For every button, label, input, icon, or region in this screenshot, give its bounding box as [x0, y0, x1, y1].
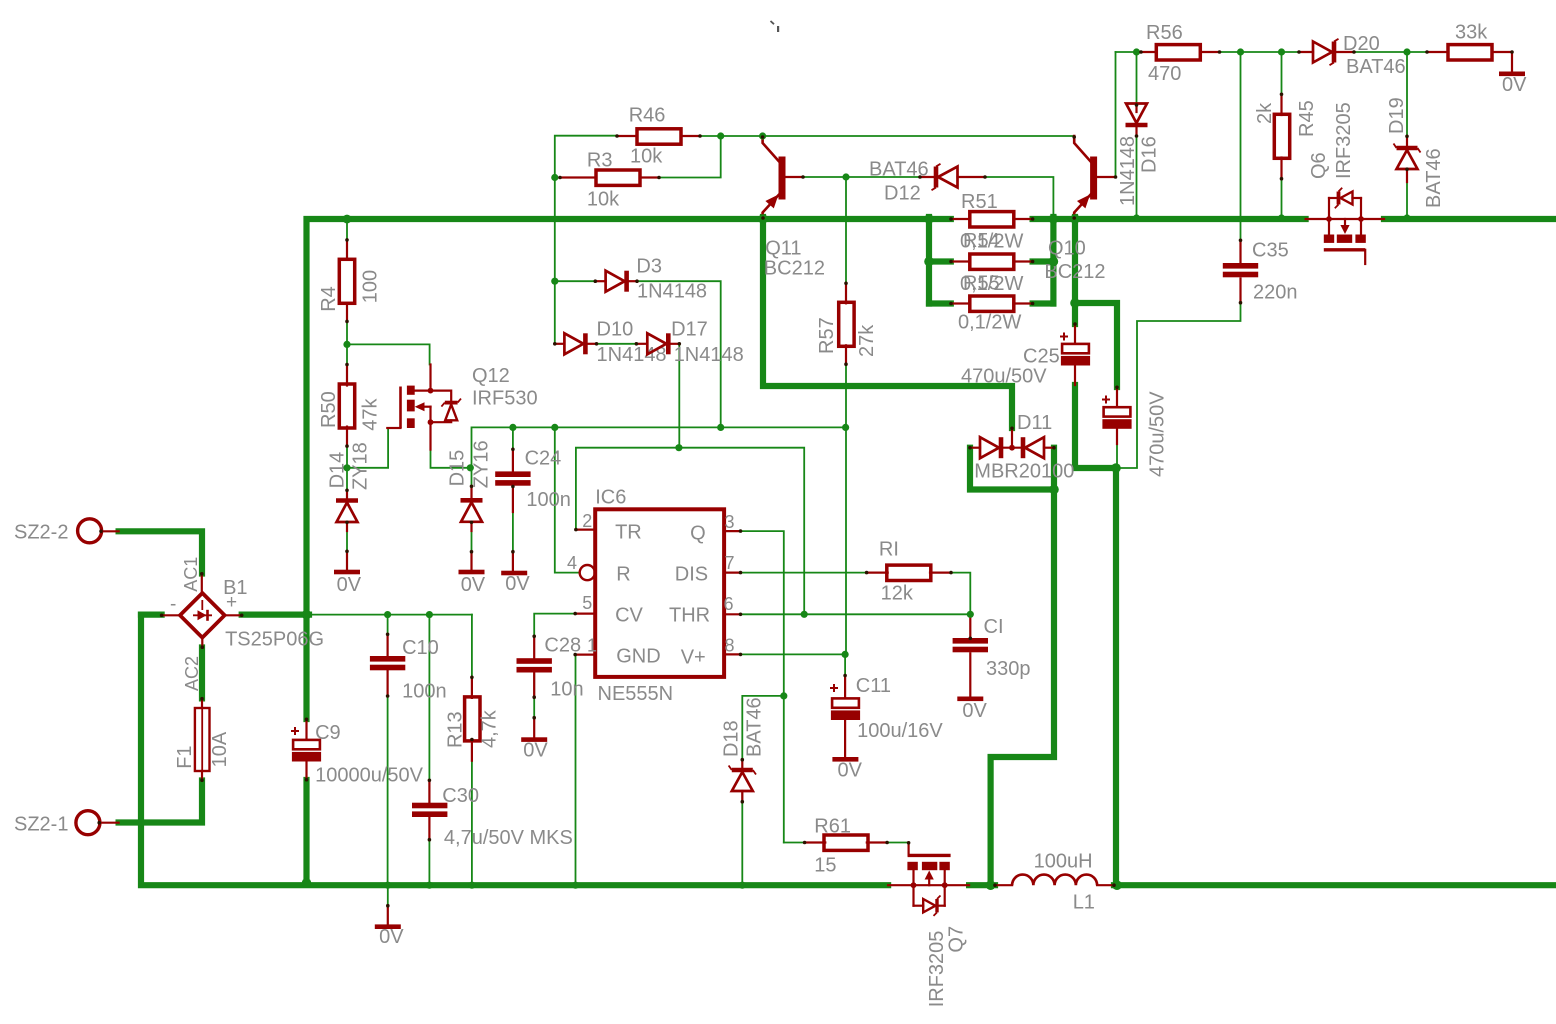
- wire thick bus drop to C25: [1072, 217, 1078, 324]
- wire thick resistor-stack right bar: [1050, 217, 1056, 304]
- wire thick Q11 emitter node down and right to D11 cathode: [763, 217, 1012, 428]
- svg-text:Q11: Q11: [765, 238, 801, 260]
- wire thick main +supply bus with left drop to C9: [307, 219, 951, 719]
- node R3 R46 left: [551, 174, 558, 181]
- svg-text:D15: D15: [446, 450, 468, 487]
- node bus Q10 emitter: [1070, 214, 1080, 224]
- svg-text:F1: F1: [174, 745, 196, 768]
- svg-text:47k: 47k: [359, 398, 381, 431]
- node rail GND pin: [572, 882, 579, 889]
- ground 0V below rail: [387, 906, 389, 924]
- wire D15 anode to 0V: [471, 523, 473, 552]
- wire thick 0V rail right of Q7: [969, 882, 995, 888]
- fuse F1 10A: [201, 698, 203, 708]
- wire top rail R56 to D20: [1220, 51, 1300, 53]
- svg-text:330p: 330p: [986, 658, 1031, 680]
- wire D15 node stub down: [471, 468, 473, 486]
- wire THR pin6 line to CI node: [741, 613, 971, 615]
- wire D16 anode from top rail: [1136, 52, 1138, 105]
- wire R50 top: [346, 344, 348, 364]
- svg-text:-: -: [170, 594, 176, 615]
- wire GND pin1 down to 0V rail: [575, 655, 577, 882]
- wire thick D11 anode node down to Q7 drain: [991, 490, 1054, 886]
- wire F1 to SZ2-1: [119, 781, 202, 823]
- svg-text:BAT46: BAT46: [1346, 56, 1406, 78]
- capacitor C35 220n: [1239, 240, 1241, 264]
- wire 33k to 0V corner: [1492, 52, 1512, 71]
- svg-text:R51: R51: [961, 191, 998, 213]
- mosfet Q6 IRF3205: [1306, 218, 1329, 220]
- wire Vcc horizontal line D15 to R57: [472, 427, 846, 467]
- svg-text:220n: 220n: [1253, 282, 1298, 304]
- wire Q pin3 right and down: [741, 531, 784, 842]
- svg-text:Q: Q: [690, 523, 706, 545]
- svg-text:R54: R54: [963, 230, 1000, 252]
- diode D17 1N4148: [636, 343, 647, 345]
- wire thick C25 bottom junction: [1075, 385, 1116, 468]
- wire Q10 base up to top rail: [1115, 52, 1117, 177]
- node top rail D16 junction: [1133, 48, 1140, 55]
- ground 0V under D14: [346, 551, 348, 570]
- svg-text:100n: 100n: [526, 489, 571, 511]
- node stack row2 left: [924, 257, 934, 267]
- node bus stack right D12: [1049, 214, 1059, 224]
- svg-text:AC1: AC1: [181, 557, 201, 592]
- wire R3 right loop up to node: [659, 136, 721, 178]
- svg-text:3: 3: [725, 512, 735, 532]
- wire C10 0V symbol below rail: [387, 888, 389, 906]
- wire D14 anode to 0V: [346, 523, 348, 551]
- resistor R46 10k: [617, 135, 637, 137]
- terminal SZ2-2: [78, 519, 102, 543]
- node Vcc pin4 feed: [551, 424, 558, 431]
- svg-text:D16: D16: [1139, 136, 1161, 173]
- svg-text:R57: R57: [816, 317, 838, 354]
- pin 6 THR: [724, 613, 740, 615]
- wire RI right corner down to THR line: [951, 573, 970, 615]
- node Vcc R57: [842, 424, 849, 431]
- wire D12 anode corner down to bus: [985, 177, 1053, 217]
- svg-text:0V: 0V: [523, 740, 548, 762]
- pin 1 GND: [575, 653, 595, 655]
- stray mark top: [771, 21, 775, 24]
- resistor R54 0,1/2W: [951, 260, 970, 262]
- wire Q12 gate to D14 node: [347, 428, 388, 468]
- capacitor C11 100u/16V: [844, 675, 846, 698]
- svg-text:8: 8: [725, 636, 735, 656]
- capacitor C24 100n: [512, 449, 514, 473]
- resistor R50 47k: [346, 364, 348, 385]
- wire C24 top stub: [512, 427, 514, 449]
- wire C30 bottom: [428, 818, 430, 883]
- svg-text:10k: 10k: [587, 189, 620, 211]
- svg-text:5: 5: [582, 593, 592, 613]
- svg-text:100u/16V: 100u/16V: [857, 720, 943, 742]
- svg-text:0V: 0V: [962, 700, 987, 722]
- node Q11 collector: [759, 132, 766, 139]
- node rail C9: [302, 878, 312, 888]
- diode D11 MBR20100 dual: [1011, 428, 1013, 448]
- op-amp IC6 NE555N box: [595, 509, 724, 677]
- svg-text:L1: L1: [1073, 892, 1095, 914]
- svg-text:C24: C24: [525, 448, 562, 470]
- wire thick output rail right of L1: [1114, 882, 1556, 888]
- wire R57 top from base node crossing bus: [845, 177, 847, 283]
- svg-text:GND: GND: [616, 646, 660, 668]
- svg-text:10n: 10n: [550, 679, 583, 701]
- wire C10 top stub: [387, 615, 389, 634]
- svg-text:BC212: BC212: [764, 258, 825, 280]
- svg-text:BAT46: BAT46: [744, 697, 766, 757]
- svg-text:D10: D10: [597, 319, 634, 341]
- wire bridge minus to left vertical: [141, 611, 162, 617]
- svg-text:Q7: Q7: [945, 926, 967, 953]
- svg-text:0,1/2W: 0,1/2W: [958, 312, 1021, 334]
- wire D19 bottom to bus: [1406, 182, 1408, 217]
- wire D14 node down to D14: [346, 468, 348, 490]
- wire left vertical B1- down to 0V rail: [141, 615, 888, 886]
- node Vcc C24: [509, 424, 516, 431]
- node line C30: [426, 611, 433, 618]
- node R4 R50 Q12 drain: [343, 341, 350, 348]
- wire C28 bottom to 0V: [533, 675, 535, 719]
- ground 0V under CI: [957, 697, 983, 702]
- svg-text:C30: C30: [442, 785, 479, 807]
- diode D3 1N4148: [595, 280, 605, 282]
- resistor RI 12k: [867, 571, 888, 573]
- svg-text:1N4148: 1N4148: [597, 344, 667, 366]
- svg-text:D11: D11: [1017, 412, 1052, 434]
- node top rail R45 junction: [1278, 48, 1285, 55]
- node B1 plus vertical: [302, 610, 312, 620]
- node C25 branch: [1070, 298, 1080, 308]
- svg-text:7: 7: [725, 553, 735, 573]
- wire D17 cathode down to TR line: [678, 344, 680, 448]
- svg-text:SZ2-2: SZ2-2: [14, 522, 68, 544]
- wire C24 bottom to 0V: [512, 487, 514, 552]
- node top rail C35 junction: [1237, 48, 1244, 55]
- wire pin4 R feed from Vcc: [555, 427, 579, 572]
- svg-text:6: 6: [724, 594, 734, 614]
- svg-text:CV: CV: [615, 605, 643, 627]
- svg-text:D19: D19: [1386, 97, 1408, 134]
- svg-text:+: +: [226, 592, 237, 613]
- pin 8 V+: [724, 653, 740, 655]
- node THR CI RI: [967, 611, 974, 618]
- svg-text:ZY16: ZY16: [471, 440, 493, 488]
- svg-text:R3: R3: [587, 150, 613, 172]
- wire R50 bottom to D14 node: [346, 427, 348, 468]
- svg-text:1: 1: [587, 636, 597, 656]
- svg-text:0V: 0V: [505, 573, 530, 595]
- wire R61 to Q7 gate: [887, 842, 909, 844]
- wire thick stub row3 left: [929, 300, 951, 306]
- svg-text:V+: V+: [681, 647, 706, 669]
- capacitor C28 10n: [533, 636, 535, 659]
- mosfet Q7 IRF3205: [888, 884, 913, 886]
- svg-text:4,7k: 4,7k: [479, 709, 501, 748]
- transistor Q11 BC212: [763, 136, 780, 162]
- pin 7 DIS: [724, 571, 740, 573]
- wire R4 bottom to node: [346, 303, 348, 344]
- svg-text:TR: TR: [615, 522, 642, 544]
- terminal SZ2-1: [76, 811, 100, 835]
- resistor R56 470: [1141, 51, 1156, 53]
- wire thick output node down to L1 output: [1113, 468, 1119, 885]
- node TR D17: [675, 444, 682, 451]
- wire D16 cathode to bus: [1136, 136, 1138, 217]
- node Vcc D3 feed: [717, 424, 724, 431]
- svg-text:C25: C25: [1023, 346, 1060, 368]
- resistor R3 10k: [560, 176, 596, 178]
- wire B1+ line to C10 C30 R13: [309, 614, 472, 616]
- svg-text:0V: 0V: [461, 574, 486, 596]
- svg-text:4,7u/50V MKS: 4,7u/50V MKS: [444, 827, 573, 849]
- svg-text:10000u/50V: 10000u/50V: [315, 765, 424, 787]
- node rail C10 0V: [384, 882, 391, 889]
- wire 470u cap bottom to output node: [1116, 444, 1118, 466]
- wire Q11 base to D12: [803, 176, 920, 178]
- diode D18 BAT46: [741, 759, 743, 768]
- node Q12 source D15: [467, 464, 474, 471]
- svg-text:C11: C11: [856, 675, 891, 697]
- svg-text:0V: 0V: [838, 760, 863, 782]
- diode D14 ZY18: [346, 490, 348, 499]
- node bus R4: [343, 215, 352, 224]
- pin end markers: [949, 217, 953, 221]
- diode D12 BAT46: [920, 176, 934, 178]
- svg-text:R56: R56: [1146, 22, 1183, 44]
- wire DIS pin7 to RI: [741, 572, 867, 574]
- wire bridge plus output: [242, 611, 309, 617]
- svg-text:27k: 27k: [856, 324, 878, 357]
- ground 0V under C28: [533, 718, 535, 737]
- bridge rectifier B1 TS25P06G: [201, 574, 203, 594]
- svg-text:470u/50V: 470u/50V: [1147, 391, 1169, 477]
- svg-text:10A: 10A: [209, 731, 231, 767]
- node bus Q11 emitter: [758, 214, 768, 224]
- ground 0V under C11: [832, 757, 858, 762]
- inductor L1 100uH: [995, 884, 1012, 886]
- ground 0V top right: [1499, 72, 1525, 77]
- diode D10 1N4148: [555, 343, 565, 345]
- node D11 anode bottom: [1049, 485, 1059, 495]
- wire AC2 bridge to fuse F1: [199, 648, 205, 699]
- wire C30 top: [428, 615, 430, 780]
- svg-text:12k: 12k: [881, 583, 914, 605]
- resistor R61 15: [805, 841, 826, 843]
- svg-text:Q10: Q10: [1048, 238, 1086, 260]
- svg-text:C10: C10: [402, 637, 439, 659]
- diode D15 ZY16: [470, 486, 472, 499]
- diode D16 1N4148: [1135, 105, 1137, 112]
- wire D10 cathode to D17 anode: [597, 343, 637, 345]
- wire top rail D20 to 33k: [1354, 51, 1427, 53]
- svg-text:R55: R55: [963, 273, 1000, 295]
- pin 4 R inversion bubble: [580, 565, 595, 580]
- wire x555 down to D3 D10 crossing bus: [554, 178, 556, 344]
- wire Q12 source down to D15 node: [431, 450, 471, 468]
- capacitor 470u/50V output: [1116, 387, 1118, 407]
- svg-text:R45: R45: [1296, 100, 1318, 137]
- wire node to Q11 collector and Q10 collector: [721, 135, 1074, 137]
- wire C35 bottom jog to output node: [1119, 279, 1241, 469]
- svg-text:470: 470: [1148, 63, 1181, 85]
- wire R45 bottom to bus: [1281, 179, 1283, 217]
- node line C10: [384, 611, 391, 618]
- capacitor CI 330p: [969, 614, 971, 638]
- wire Q net to D18: [742, 696, 784, 760]
- node R50 D14 Q12 gate: [343, 464, 350, 471]
- node bus stack left: [924, 214, 934, 224]
- diode D19 BAT46: [1406, 136, 1408, 146]
- transistor Q10 BC212: [1074, 136, 1091, 162]
- wire C9 bottom to 0V rail: [303, 780, 309, 883]
- node bus D19: [1403, 214, 1410, 221]
- wire C11 top stub: [844, 654, 846, 675]
- node V+ C11 R57: [842, 651, 849, 658]
- capacitor C9 10000u/50V: [305, 719, 307, 739]
- wire R46 left feed: [555, 136, 617, 178]
- svg-text:100n: 100n: [402, 681, 447, 703]
- svg-text:33k: 33k: [1455, 22, 1488, 44]
- resistor R57 27k: [845, 283, 847, 303]
- wire V+ pin8 to C11 node: [741, 653, 846, 655]
- resistor 33k: [1427, 51, 1448, 53]
- resistor R45 2k: [1280, 94, 1282, 115]
- wire C35 top from top rail crossing bus: [1240, 52, 1242, 240]
- node bus R45: [1278, 214, 1285, 221]
- pin 3 Q: [724, 530, 740, 532]
- wire R57 bottom down to Vcc line and V+ line: [845, 365, 847, 655]
- svg-text:SZ2-1: SZ2-1: [14, 814, 68, 836]
- resistor R55 0,1/2W: [951, 302, 970, 304]
- wire R45 top from rail: [1281, 52, 1283, 94]
- svg-text:IRF3205: IRF3205: [1333, 102, 1355, 179]
- capacitor C10 100n: [387, 634, 389, 657]
- svg-text:ZY18: ZY18: [349, 442, 371, 490]
- svg-text:0V: 0V: [379, 926, 404, 948]
- svg-text:470u/50V: 470u/50V: [961, 366, 1047, 388]
- svg-text:100: 100: [359, 270, 381, 303]
- wire thick branch to 470u cap: [1075, 303, 1117, 387]
- transistor Q12 IRF530: [399, 387, 402, 429]
- wire R46 right to node: [681, 135, 721, 137]
- svg-text:10k: 10k: [630, 146, 663, 168]
- node rail D18: [739, 882, 746, 889]
- wire node to Q12 drain: [347, 344, 430, 364]
- svg-text:C9: C9: [315, 722, 341, 744]
- svg-text:1N4148: 1N4148: [674, 344, 744, 366]
- svg-text:AC2: AC2: [182, 656, 202, 691]
- wire thick bus from R51 stack to Q6: [1033, 216, 1306, 222]
- svg-text:D3: D3: [636, 256, 662, 278]
- node rail R13: [468, 882, 475, 889]
- wire SZ2-2 to bridge AC1: [119, 531, 202, 573]
- svg-text:D18: D18: [720, 720, 742, 757]
- wire top rail y52 left segment: [1116, 51, 1142, 53]
- svg-text:NE555N: NE555N: [598, 683, 674, 705]
- svg-text:R61: R61: [814, 816, 851, 838]
- svg-text:15: 15: [814, 855, 836, 877]
- svg-text:RI: RI: [879, 539, 899, 561]
- wire R4 top from bus: [346, 219, 348, 240]
- capacitor C25 470u/50V: [1074, 324, 1076, 343]
- svg-text:D17: D17: [671, 319, 708, 341]
- node D3 anode: [551, 278, 558, 285]
- svg-text:4: 4: [567, 553, 577, 573]
- wire D18 anode to 0V rail: [741, 792, 743, 882]
- node Q D18: [780, 692, 787, 699]
- wire R13 bottom to rail: [471, 740, 473, 882]
- svg-text:Q12: Q12: [472, 365, 510, 387]
- diode D20 BAT46: [1299, 51, 1313, 53]
- svg-text:MBR20100: MBR20100: [974, 461, 1074, 483]
- wire thick stub row3 right: [1033, 300, 1054, 306]
- node bus D16: [1133, 214, 1140, 221]
- svg-text:100uH: 100uH: [1034, 851, 1093, 873]
- svg-text:0V: 0V: [1502, 74, 1527, 96]
- wire TR pin2 up and over to THR: [576, 448, 804, 615]
- svg-text:2k: 2k: [1254, 102, 1276, 124]
- pin 5 CV: [575, 612, 595, 614]
- svg-text:IC6: IC6: [595, 487, 626, 509]
- resistor R4 100: [346, 240, 348, 260]
- node rail Q7 drain net: [986, 880, 996, 890]
- wire CV pin5 to C28: [534, 614, 575, 636]
- node rail C30: [426, 882, 433, 889]
- node R46 R3 right: [717, 132, 724, 139]
- resistor R51 0,1/2W: [951, 218, 970, 220]
- node top rail D19 junction: [1403, 48, 1410, 55]
- svg-text:BAT46: BAT46: [1423, 148, 1445, 208]
- node rail L1 output: [1112, 880, 1122, 890]
- svg-text:THR: THR: [669, 605, 710, 627]
- node THR TR link: [801, 611, 808, 618]
- svg-text:IRF530: IRF530: [472, 388, 538, 410]
- wire thick D11 anodes loop: [970, 448, 1054, 490]
- svg-text:R13: R13: [445, 711, 467, 748]
- svg-text:R50: R50: [318, 391, 340, 428]
- svg-text:Q6: Q6: [1308, 152, 1330, 179]
- ground 0V under D15: [470, 552, 472, 570]
- svg-text:2: 2: [582, 511, 592, 531]
- pin 2 TR: [576, 528, 595, 530]
- svg-text:C35: C35: [1252, 240, 1289, 262]
- wire thick stub row2 right: [1033, 258, 1054, 264]
- svg-text:TS25P06G: TS25P06G: [225, 629, 324, 651]
- svg-text:DIS: DIS: [675, 564, 708, 586]
- node stack row2 right: [1049, 257, 1059, 267]
- svg-text:D12: D12: [884, 183, 921, 205]
- wire D3 cathode to corner down to Vcc line: [637, 281, 721, 427]
- node Q11 base R57: [842, 173, 849, 180]
- node D11 output junction: [1111, 463, 1121, 473]
- svg-text:CI: CI: [984, 616, 1004, 638]
- wire R13 top corner: [471, 615, 473, 677]
- wire D3 anode from x555: [555, 280, 596, 282]
- svg-text:1N4148: 1N4148: [637, 281, 707, 303]
- wire thick bus right of Q6 to edge: [1384, 216, 1556, 222]
- svg-text:D20: D20: [1343, 33, 1380, 55]
- wire C10 bottom to 0V rail: [387, 671, 389, 882]
- svg-text:1N4148: 1N4148: [1117, 136, 1139, 206]
- svg-text:0V: 0V: [337, 574, 362, 596]
- wire thick resistor-stack left bar: [926, 217, 932, 304]
- svg-text:R: R: [616, 564, 630, 586]
- resistor R13 4,7k: [471, 677, 473, 698]
- svg-text:R46: R46: [629, 105, 666, 127]
